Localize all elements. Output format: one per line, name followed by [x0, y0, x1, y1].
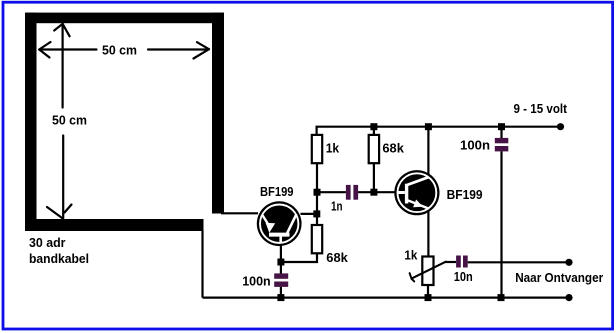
capacitor 100n (Q1 base decoupling) — [274, 273, 288, 287]
supply rail wire 9-15V — [317, 127, 561, 135]
svg-text:bandkabel: bandkabel — [29, 251, 89, 266]
wire 68k bottom to Q1 base node — [281, 253, 317, 262]
wire node line x=317 (1k bottom to 68k top) — [316, 163, 318, 225]
svg-text:10n: 10n — [454, 269, 473, 284]
resistor 68k (Q2 bias) — [369, 135, 379, 163]
svg-text:BF199: BF199 — [260, 184, 294, 199]
svg-text:BF199: BF199 — [447, 187, 483, 202]
svg-text:1k: 1k — [404, 248, 418, 263]
wire 68k top to rail — [373, 127, 375, 135]
wire 100n to ground rail — [280, 287, 282, 298]
wire loop to ground rail — [201, 230, 203, 298]
potentiometer 1k (emitter) — [422, 257, 433, 286]
dimension arrow horizontal 50 cm — [39, 42, 209, 59]
svg-text:1k: 1k — [326, 141, 340, 156]
loop antenna L1 (50x50cm frame, thick bars) — [25, 13, 224, 231]
wiper arrow of potentiometer — [410, 262, 446, 282]
terminal ground (round) — [565, 294, 572, 301]
wire loop to Q1 emitter — [221, 212, 258, 214]
svg-text:Naar Ontvanger: Naar Ontvanger — [515, 270, 603, 285]
svg-text:68k: 68k — [382, 141, 404, 156]
ground rail wire — [203, 297, 570, 299]
terminal output (round) — [565, 259, 572, 266]
svg-text:50 cm: 50 cm — [102, 42, 137, 57]
junction node dots (square) — [277, 123, 505, 301]
wire Q1 collector to node A — [301, 213, 317, 215]
svg-text:30 adr: 30 adr — [29, 235, 66, 250]
wire 100n down to ground rail — [500, 151, 502, 297]
terminal 9-15V (round) — [557, 123, 564, 130]
wire Q2 emitter down — [427, 211, 429, 257]
capacitor 1n (coupling) — [346, 185, 358, 200]
capacitor 10n (output coupling) — [456, 256, 468, 268]
svg-text:100n: 100n — [242, 273, 271, 288]
wire wiper to 10n — [446, 261, 457, 263]
wire Q1 base down to 100n — [280, 245, 282, 274]
resistor 68k (feedback Q1) — [312, 225, 322, 253]
wire pot bottom to ground rail — [427, 285, 429, 298]
wire 10n to output terminal — [468, 261, 569, 263]
transistor Q2 BF199 — [394, 170, 439, 215]
svg-text:68k: 68k — [326, 250, 348, 265]
svg-text:9 - 15 volt: 9 - 15 volt — [514, 101, 568, 116]
svg-text:1n: 1n — [331, 199, 343, 214]
resistor 1k (collector load Q1) — [312, 135, 322, 163]
transistor Q1 BF199 (common-base) — [257, 201, 302, 246]
wire Q2 collector to rail — [427, 127, 429, 174]
dimension arrow vertical 50 cm — [47, 24, 72, 219]
wire 1n to Q2 base — [358, 191, 395, 193]
capacitor 100n (supply decoupling) — [500, 127, 502, 138]
wire 68k bottom to 1n node — [373, 163, 375, 192]
svg-text:50 cm: 50 cm — [52, 112, 87, 127]
svg-text:100n: 100n — [460, 138, 490, 153]
wire 1n node left — [317, 191, 346, 193]
